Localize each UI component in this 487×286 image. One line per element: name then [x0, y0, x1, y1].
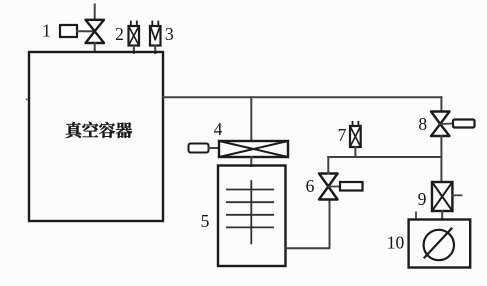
valve 8 (bowtie)	[431, 112, 450, 137]
trap 5 (vessel)	[218, 166, 286, 267]
wire baffle4 to trap 5	[250, 157, 252, 166]
valve 2 (solenoid)	[129, 22, 140, 54]
svg-text:9: 9	[418, 189, 427, 209]
actuator box 6	[340, 182, 363, 191]
svg-text:1: 1	[42, 21, 51, 41]
svg-text:6: 6	[306, 176, 315, 196]
baffle 4 (rect with X)	[219, 141, 288, 157]
svg-text:5: 5	[201, 211, 210, 231]
speck (scan artifact)	[26, 98, 28, 100]
pump 10 (box)	[409, 220, 471, 268]
gauge box 1	[60, 25, 77, 37]
wire: stem above valve 1	[94, 5, 96, 21]
wire: secondary manifold	[328, 156, 441, 158]
svg-text:4: 4	[214, 119, 223, 139]
svg-text:10: 10	[387, 233, 405, 253]
valve 3 (solenoid)	[150, 22, 161, 54]
wire: manifold drop to baffle 4	[250, 97, 252, 141]
svg-text:2: 2	[115, 24, 124, 44]
gauge box near 4	[189, 144, 209, 153]
wire manifold corner to valve 8	[440, 97, 442, 111]
tick on pump 10 top	[415, 213, 417, 220]
label 真空容器	[66, 122, 132, 138]
wire valve6 up to manifold2	[327, 157, 329, 174]
wire valve8 to actuator 8	[440, 123, 453, 126]
wire trap5 to valve 6	[286, 200, 330, 248]
valve V1 (bowtie)	[86, 20, 105, 43]
wire pump9 to pump 10	[441, 211, 443, 220]
valve 7 (solenoid)	[350, 122, 361, 157]
wire valve V1 to container	[94, 43, 96, 52]
wire gauge4 to baffle 4	[209, 147, 220, 149]
svg-text:7: 7	[338, 125, 347, 145]
wire gauge1 to valve V1	[77, 30, 94, 32]
wire: main manifold	[163, 96, 441, 98]
valve 6 (bowtie)	[319, 174, 338, 200]
wire valve8 down to pump 9	[440, 136, 442, 182]
trap 5 internal baffle	[227, 181, 273, 243]
stub right of pump 9	[452, 194, 461, 196]
vacuum container	[29, 52, 163, 221]
svg-text:8: 8	[418, 114, 427, 134]
wire valve6 to actuator 6	[328, 186, 340, 188]
svg-text:3: 3	[165, 24, 174, 44]
pump 9 (rect with X)	[432, 182, 452, 211]
pump 10 rotor (circle with slash)	[424, 229, 454, 261]
actuator box 8	[453, 120, 475, 128]
